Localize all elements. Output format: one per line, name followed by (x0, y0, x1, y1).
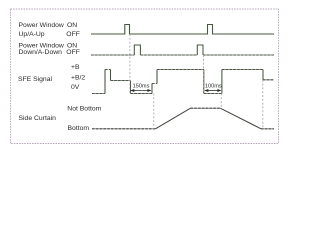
svg-text:+B: +B (71, 64, 80, 71)
wire underlay: SFE levels faint fill (92, 70, 274, 94)
wire: SFE Signal horizontal levels (dashed texture) (92, 70, 274, 94)
svg-text:Bottom: Bottom (68, 125, 90, 132)
svg-text:+B/2: +B/2 (71, 74, 85, 81)
guide dashed line from SFE final step to Side Curtain bottom return (262, 80, 264, 129)
wire: Power Window Down/A-Down OFF baseline (dashed texture) (91, 54, 274, 56)
dashed frame border (11, 9, 279, 144)
svg-text:OFF: OFF (66, 49, 80, 56)
dimension arrow 100ms (204, 89, 221, 92)
svg-text:0V: 0V (71, 84, 80, 91)
wire: Side Curtain fall diagonal (220, 108, 261, 129)
guide dashed line from Up pulse 1 fall to SFE fall (129, 34, 131, 94)
svg-text:SFE Signal: SFE Signal (18, 76, 52, 83)
wire: SFE Signal vertical edges (105, 70, 263, 94)
guide dashed line from SFE rise 2 to Side Curtain plateau end (220, 94, 222, 109)
svg-text:Power Window: Power Window (19, 22, 64, 29)
wire underlay: Side Curtain levels faint fill (92, 108, 274, 129)
wire: Power Window Up/A-Up waveform with two pulses (91, 25, 274, 35)
svg-text:150ms: 150ms (133, 83, 150, 89)
guide dashed line from Down pulse 2 fall to SFE fall (203, 55, 205, 94)
wire: Side Curtain rise diagonal (156, 108, 191, 129)
svg-text:Up/A-Up: Up/A-Up (19, 31, 45, 38)
wire: Side Curtain bottom level right (dashed texture) (261, 128, 274, 130)
svg-text:Down/A-Down: Down/A-Down (19, 49, 63, 56)
wire: Side Curtain not-bottom plateau (dashed texture) (191, 107, 221, 109)
svg-text:Side Curtain: Side Curtain (19, 115, 57, 122)
wire: Side Curtain bottom level left (dashed texture) (92, 128, 156, 130)
svg-text:100ms: 100ms (205, 83, 222, 89)
wire: Power Window Down/A-Down pulse 2 (197, 45, 203, 55)
wire: Power Window Down/A-Down pulse 1 (134, 45, 140, 55)
wire underlay: Down/A-Down baseline faint fill (91, 54, 274, 56)
svg-text:Not Bottom: Not Bottom (67, 106, 101, 113)
dimension arrow 150ms (130, 89, 151, 92)
svg-text:OFF: OFF (66, 31, 80, 38)
guide dashed line from SFE rise to Side Curtain rise start (153, 94, 155, 129)
svg-text:ON: ON (67, 22, 77, 29)
